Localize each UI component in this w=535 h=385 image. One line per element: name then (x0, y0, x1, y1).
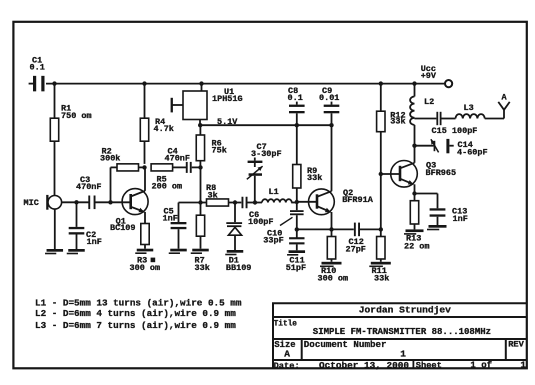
capacitor C11 (296, 229, 298, 237)
svg-text:0.1: 0.1 (30, 63, 45, 73)
capacitor C14 variable (415, 145, 434, 147)
svg-text:1PH51G: 1PH51G (212, 94, 243, 104)
microphone MIC (48, 196, 62, 210)
resistor R12 (380, 84, 382, 112)
svg-text:BB109: BB109 (226, 263, 252, 273)
inductor L2 (414, 84, 416, 97)
resistor R11 (380, 229, 382, 236)
svg-text:L3 - D=6mm 7 turns (air),wire: L3 - D=6mm 7 turns (air),wire 0.9 mm (35, 320, 236, 331)
svg-text:C15 100pF: C15 100pF (432, 126, 478, 136)
transistor Q2 (309, 189, 335, 215)
capacitor C13 (415, 193, 438, 195)
svg-text:33k: 33k (390, 117, 405, 127)
wire Q3 emitter (414, 184, 416, 193)
svg-text:Title: Title (274, 320, 298, 328)
svg-text:Sheet: Sheet (416, 361, 442, 371)
node Q2 emitter-R10 (329, 227, 333, 231)
node R4 top rail (142, 81, 146, 85)
ground R3 (137, 249, 154, 252)
ground C5 (170, 249, 187, 252)
svg-text:BC109: BC109 (110, 223, 136, 233)
ground C11 (289, 250, 306, 253)
wire 5.1V rail (200, 124, 332, 126)
svg-text:REV: REV (508, 340, 524, 350)
resistor R5 (151, 164, 173, 171)
svg-text:300k: 300k (100, 154, 120, 164)
node Q3 emitter-R13-C13 (412, 191, 416, 195)
node L2 top rail (412, 81, 416, 85)
trimmer capacitor C7 (254, 158, 256, 161)
resistor R3 (144, 212, 146, 224)
resistor R2 (110, 167, 112, 202)
svg-text:4-60pF: 4-60pF (457, 148, 488, 158)
node Q1 base (108, 200, 112, 204)
svg-text:3-30pF: 3-30pF (251, 149, 282, 159)
antenna A (503, 110, 505, 119)
capacitor C4 (186, 162, 188, 173)
resistor R1 (54, 84, 56, 119)
svg-text:A: A (502, 93, 508, 103)
IC U1 1PH51G (183, 91, 207, 120)
svg-text:L3: L3 (464, 103, 474, 113)
svg-text:470nF: 470nF (165, 154, 191, 164)
svg-text:+9V: +9V (421, 71, 437, 81)
resistor R13 (414, 194, 416, 201)
node R2-R4-R5 (142, 165, 146, 169)
resistor R4 (144, 84, 146, 119)
ground R13 (406, 229, 424, 232)
svg-text:33pF: 33pF (263, 235, 283, 245)
capacitor C8 (296, 102, 298, 105)
svg-text:Document Number: Document Number (304, 339, 387, 350)
capacitor C12 (354, 223, 356, 237)
node L1-R9-C10-Q2 (295, 200, 299, 204)
wire Q1 collector (144, 167, 146, 191)
node C8 on 5.1V rail (295, 123, 299, 127)
svg-text:1 of: 1 of (470, 361, 492, 371)
node MIC-C2-C3 (74, 200, 78, 204)
node C10-C11 emitter rail (295, 227, 299, 231)
wire Q3 collector (414, 146, 416, 163)
svg-text:1: 1 (520, 360, 526, 371)
node Q3 collector-C14-L2 (412, 144, 416, 148)
ground C2 (68, 249, 85, 252)
svg-text:L1: L1 (269, 187, 279, 197)
title block frame (273, 303, 527, 368)
svg-text:750 om: 750 om (61, 111, 92, 121)
svg-text:300 om: 300 om (318, 274, 349, 284)
node R12-Q3 base (379, 172, 383, 176)
svg-text:22 om: 22 om (404, 242, 430, 252)
ground R11 (371, 262, 391, 265)
node C1-R1 (52, 81, 56, 85)
node R7-R8-C5 (198, 200, 202, 204)
svg-text:100pF: 100pF (248, 217, 274, 227)
svg-text:L1 - D=5mm 13 turns (air),wire: L1 - D=5mm 13 turns (air),wire 0.5 mm (35, 298, 242, 309)
svg-text:75k: 75k (212, 146, 227, 156)
resistor R10 (331, 229, 333, 236)
svg-text:SIMPLE FM-TRANSMITTER 88...108: SIMPLE FM-TRANSMITTER 88...108MHz (313, 327, 491, 337)
svg-text:33k: 33k (374, 274, 389, 284)
svg-text:51pF: 51pF (286, 263, 306, 273)
wire Q2 emitter (331, 212, 333, 229)
capacitor C9 (331, 102, 333, 105)
node C12-R11 (379, 227, 383, 231)
node U1 top rail (199, 81, 203, 85)
transistor Q1 (122, 189, 148, 215)
svg-text:A: A (284, 349, 290, 360)
node C4-R6-R8 (198, 165, 202, 169)
inductor L1 (262, 199, 292, 202)
wire C12 node to Q3 base (380, 174, 382, 229)
svg-text:33k: 33k (307, 173, 322, 183)
ground D1 (227, 250, 244, 253)
svg-text:33k: 33k (195, 263, 210, 273)
transistor Q3 (391, 161, 418, 188)
capacitor C6 (242, 197, 244, 209)
ground C13 (429, 225, 447, 228)
capacitor C2 (76, 202, 78, 227)
svg-text:Jordan Strundjev: Jordan Strundjev (359, 305, 451, 316)
resistor R8 (201, 202, 207, 204)
svg-text:1nF: 1nF (163, 214, 178, 224)
node C9-Q2 collector (329, 123, 333, 127)
capacitor C15 (415, 118, 437, 120)
wire emitter rail (297, 228, 354, 230)
node C6-C7-L1 (253, 200, 257, 204)
terminal Ucc +9V (445, 80, 452, 87)
svg-text:L2: L2 (424, 97, 434, 107)
svg-text:0.01: 0.01 (319, 93, 339, 103)
node U1-R6 (198, 123, 202, 127)
svg-text:MIC: MIC (24, 198, 39, 208)
ground MIC (54, 209, 56, 249)
pointer line C10 label (280, 217, 293, 225)
wire top +9V rail (46, 83, 445, 85)
resistor R9 (296, 125, 298, 164)
svg-text:470nF: 470nF (76, 182, 102, 192)
capacitor C1 (33, 76, 36, 92)
capacitor C3 (88, 196, 90, 210)
svg-text:BFR91A: BFR91A (342, 195, 374, 205)
wire C4 node down (200, 167, 202, 202)
capacitor C10 (296, 202, 298, 210)
svg-text:3k: 3k (208, 191, 218, 201)
svg-text:1nF: 1nF (87, 237, 102, 247)
ground R7 (192, 249, 209, 252)
svg-text:5.1V: 5.1V (217, 117, 238, 127)
svg-text:0.1: 0.1 (288, 93, 303, 103)
svg-text:1: 1 (400, 349, 406, 360)
svg-text:L2 - D=6mm 4 turns (air),wire: L2 - D=6mm 4 turns (air),wire 0.9 mm (35, 308, 236, 319)
svg-text:October 13, 2000: October 13, 2000 (319, 360, 409, 371)
capacitor C5 (179, 202, 201, 204)
inductor L3 (456, 114, 485, 118)
svg-text:300 om: 300 om (130, 263, 161, 273)
svg-text:Date:: Date: (274, 361, 300, 371)
wire Q2 collector (331, 125, 333, 191)
resistor R6 (199, 125, 201, 135)
svg-text:BFR965: BFR965 (426, 168, 457, 178)
resistor R7 (200, 203, 202, 216)
varicap diode D1 (234, 203, 236, 223)
node R12 top rail (379, 81, 383, 85)
svg-text:27pF: 27pF (346, 245, 366, 255)
svg-text:1nF: 1nF (453, 214, 468, 224)
ground R10 (322, 262, 342, 265)
svg-text:4.7k: 4.7k (154, 124, 174, 134)
svg-text:200 om: 200 om (152, 182, 183, 192)
node R8-D1-C6 (233, 200, 237, 204)
